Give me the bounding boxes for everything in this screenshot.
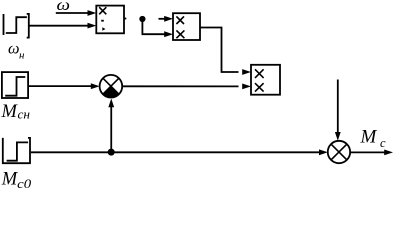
- wire node A to product B top input: [159, 16, 174, 22]
- step source block 1 (omega_n): [4, 14, 29, 38]
- label M_c0: [1, 170, 32, 191]
- wire omega to divider top input: [56, 10, 97, 16]
- summator 1 (circle with X, filled bottom sector): [100, 75, 123, 98]
- label M_c: [360, 127, 387, 150]
- divide block U1 (x over :): [96, 6, 126, 34]
- wire node A down and right to product B bottom input: [142, 21, 173, 38]
- svg-text:сн: сн: [18, 106, 31, 121]
- junction dot on bottom wire: [108, 149, 115, 156]
- step source block 3 (M_c0): [3, 138, 30, 163]
- label omega_n: [8, 40, 25, 61]
- product block U3 (x x): [251, 65, 280, 95]
- wire down into summator 2 top input: [335, 80, 341, 141]
- label M_cn: [1, 102, 31, 122]
- svg-text:М: М: [360, 127, 378, 148]
- svg-text:М: М: [1, 102, 19, 122]
- svg-text:н: н: [19, 49, 25, 61]
- output wire M_c: [350, 150, 393, 156]
- label omega (top input): [57, 0, 71, 14]
- step source block 2 (M_cn): [2, 72, 28, 98]
- wire block1 to divider bottom input: [30, 23, 97, 29]
- product block U2 (x x): [173, 13, 200, 40]
- svg-text:ω: ω: [57, 0, 71, 14]
- svg-text:с: с: [380, 136, 386, 150]
- svg-text:с0: с0: [17, 176, 32, 191]
- wire block2 to summator 1: [28, 83, 100, 89]
- wire summator 1 to product C bottom input: [122, 84, 251, 90]
- wire product B output to product C top input: [200, 28, 251, 75]
- svg-text:М: М: [1, 170, 19, 190]
- node dot A: [139, 16, 145, 22]
- wire block3 to summator 2: [31, 149, 328, 155]
- summator 2 (circle with X): [328, 141, 350, 163]
- svg-text:ω: ω: [8, 40, 20, 57]
- wire junction up to summator 1 bottom input: [108, 99, 114, 152]
